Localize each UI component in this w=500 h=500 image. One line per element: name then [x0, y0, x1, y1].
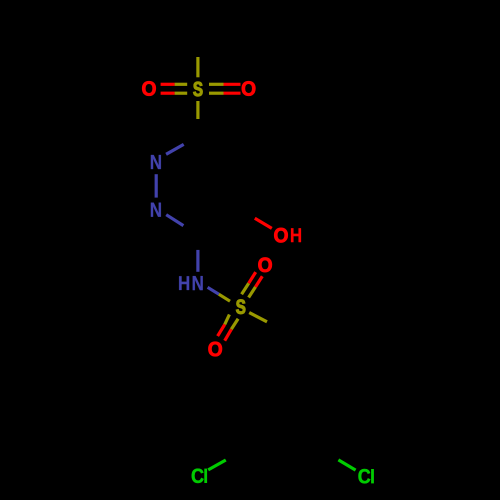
- hydroxyl H label: [291, 228, 301, 242]
- atom N3 (sulfonamide N): [193, 276, 203, 290]
- bond S1-C6 (S half): [196, 101, 199, 119]
- bond C4-OH (O half): [255, 218, 272, 228]
- atom Cl right (C glyph): [359, 469, 371, 483]
- bond N1-N2: [155, 174, 158, 197]
- bond C5'-Cl left (Cl half): [208, 460, 226, 470]
- bond C3-N3 (N half): [196, 250, 199, 272]
- S2=O4 double bond (lower left O): [225, 315, 230, 325]
- atom O4 (lower sulfonyl O): [209, 342, 222, 356]
- bond CH3-S1 (S half): [196, 57, 199, 77]
- S2=O3 double bond (upper right O): [242, 283, 249, 294]
- hydroxyl O label: [274, 228, 287, 242]
- S1=O2 double bond (right): [209, 83, 224, 86]
- bond N2-C3 (N half): [166, 215, 183, 226]
- atom S2 (sulfonamide S): [236, 300, 245, 314]
- amide H label: [179, 276, 189, 290]
- atom O1 (left sulfonyl O): [142, 81, 155, 95]
- bond C3'-Cl right (Cl half): [338, 460, 355, 470]
- atom N2: [151, 203, 161, 217]
- bond S2-CH2 (S half): [249, 313, 267, 322]
- atom N1: [151, 155, 161, 169]
- bond C6-N1 (N half): [166, 144, 184, 154]
- atom O2 (right sulfonyl O): [242, 81, 255, 95]
- atom S1 (methylsulfonyl S): [193, 82, 202, 96]
- atom Cl left (C glyph): [192, 469, 204, 483]
- bond N3-S2: [208, 287, 219, 294]
- S1=O1 double bond (left): [161, 83, 175, 86]
- atom O3 (upper sulfonyl O): [258, 258, 271, 272]
